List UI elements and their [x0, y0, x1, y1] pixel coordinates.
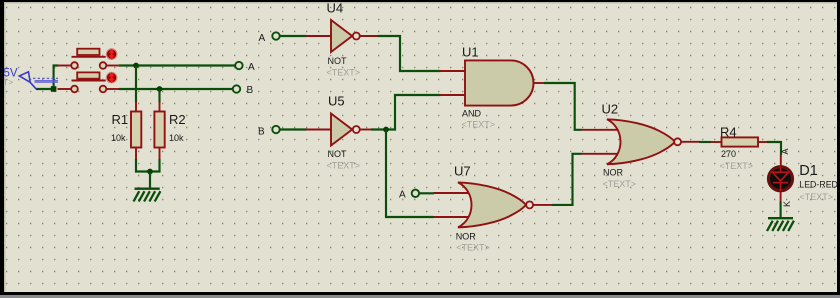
- wire down to R2: [158, 89, 160, 103]
- svg-text:10k: 10k: [169, 133, 184, 143]
- svg-text:NOR: NOR: [603, 168, 624, 178]
- wire U2 out to R4: [699, 141, 711, 143]
- ground (LED): [767, 218, 794, 231]
- svg-text:<TEXT>: <TEXT>: [456, 243, 490, 253]
- AND gate U1: [440, 60, 545, 105]
- svg-text:K: K: [782, 201, 792, 207]
- NOT gate U4: [306, 20, 378, 52]
- svg-text:B: B: [247, 85, 254, 96]
- junction at 5V feed: [51, 86, 57, 92]
- svg-text:AND: AND: [462, 108, 482, 118]
- NOT gate U5: [306, 114, 372, 146]
- pin lead left: [58, 88, 72, 90]
- svg-text:LED-RED: LED-RED: [799, 180, 838, 190]
- push button switch bottom (SW-B): [58, 72, 120, 93]
- junction at resistor commons: [147, 169, 153, 175]
- svg-text:R2: R2: [169, 112, 186, 127]
- svg-text:<TEXT>: <TEXT>: [603, 179, 637, 189]
- resistor R1: [131, 102, 141, 160]
- svg-text:NOT: NOT: [328, 56, 348, 66]
- NOR gate U2: [581, 119, 700, 164]
- svg-text:<TEXT>: <TEXT>: [720, 161, 754, 171]
- push button switch top (SW-A): [58, 48, 120, 69]
- wire U5 out to junction and U1 bottom input: [371, 95, 441, 130]
- svg-text:U1: U1: [462, 44, 479, 59]
- wire R2 bottom to ground junction: [150, 159, 160, 172]
- svg-text:<TEXT>: <TEXT>: [327, 68, 361, 78]
- terminal circle right: [100, 86, 107, 93]
- pin lead right: [106, 65, 119, 67]
- wire junction down to U7 bottom input: [386, 130, 434, 218]
- wire U4 out to U1 top input: [378, 36, 441, 71]
- svg-text:NOT: NOT: [328, 149, 348, 159]
- power terminal 5V symbol: [19, 72, 36, 89]
- wire row B: [119, 88, 233, 90]
- svg-text:U2: U2: [602, 101, 619, 116]
- led D1: [769, 155, 793, 202]
- wire: junction up to top switch row: [54, 66, 59, 91]
- pin lead left: [58, 65, 72, 67]
- junction to R1: [133, 63, 139, 69]
- wire row A: [119, 64, 235, 66]
- svg-text:A: A: [399, 190, 406, 201]
- wire B to U5: [280, 128, 307, 130]
- wire: 5V terminal to junction: [36, 88, 54, 90]
- terminal A (U4 input): [272, 32, 279, 39]
- terminal A (U7 input): [412, 190, 419, 197]
- svg-text:B: B: [258, 127, 265, 138]
- svg-text:10k: 10k: [111, 133, 126, 143]
- wire U1 out to U2 top input: [544, 83, 582, 130]
- svg-text:A: A: [259, 33, 266, 44]
- terminal A (left section): [235, 62, 242, 69]
- wire A to U4: [280, 35, 307, 37]
- button cap: [77, 72, 99, 78]
- svg-text:270: 270: [721, 149, 736, 159]
- pin lead right: [106, 88, 119, 90]
- contact bar: [72, 80, 106, 82]
- svg-text:A: A: [248, 62, 255, 73]
- contact bar: [72, 56, 106, 58]
- svg-text:<TEXT>: <TEXT>: [462, 119, 496, 129]
- actuator button: [106, 72, 118, 84]
- actuator button: [106, 48, 118, 60]
- wire A to U7: [419, 192, 434, 194]
- terminal circle left: [71, 62, 78, 69]
- resistor R2: [154, 102, 164, 160]
- wire down to R1: [135, 66, 137, 103]
- terminal B (left section): [233, 85, 240, 92]
- svg-text:D1: D1: [799, 163, 818, 179]
- svg-text:R4: R4: [720, 125, 737, 140]
- resistor R4: [711, 137, 768, 146]
- terminal B (U5 input): [272, 126, 279, 133]
- svg-text:U4: U4: [327, 0, 344, 15]
- wire R1 bottom to ground junction: [136, 159, 150, 172]
- wire R4 to LED: [767, 142, 781, 155]
- ground (resistors): [134, 189, 161, 202]
- svg-text:U5: U5: [328, 93, 345, 108]
- junction at U5 output: [383, 127, 389, 133]
- junction to R2: [157, 86, 163, 92]
- wire junction to ground: [149, 172, 151, 189]
- NOR gate U7: [434, 182, 553, 227]
- svg-text:<TEXT>: <TEXT>: [800, 192, 834, 202]
- svg-text:A: A: [780, 148, 790, 154]
- svg-text:T>: T>: [3, 77, 13, 87]
- svg-text:U7: U7: [454, 164, 471, 179]
- button cap: [77, 49, 99, 55]
- terminal circle left: [71, 86, 78, 93]
- svg-text:NOR: NOR: [456, 232, 477, 242]
- wire U7 out to U2 bottom input: [552, 154, 582, 205]
- svg-text:R1: R1: [112, 112, 129, 127]
- terminal circle right: [100, 62, 107, 69]
- svg-text:<TEXT>: <TEXT>: [327, 161, 361, 171]
- 5V battery bars: [33, 78, 58, 82]
- wire LED to ground: [780, 202, 782, 219]
